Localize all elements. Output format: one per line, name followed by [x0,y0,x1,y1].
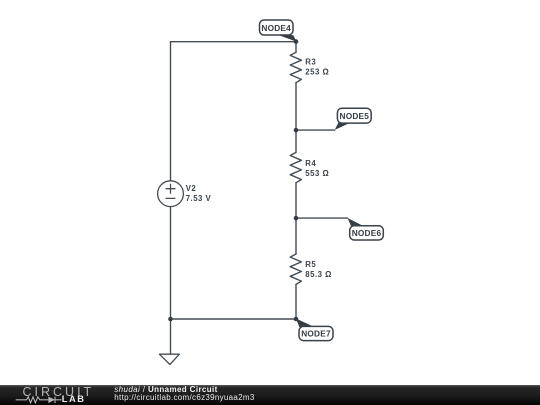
svg-text:85.3 Ω: 85.3 Ω [305,270,332,279]
svg-text:NODE7: NODE7 [301,329,331,339]
node NODE7 flag [296,318,333,340]
wire bottom horizontal [171,318,297,320]
svg-text:R4: R4 [305,159,316,168]
footer bar [0,385,540,405]
svg-text:7.53 V: 7.53 V [186,194,212,203]
ground [159,354,179,364]
wire stub to NODE5 flag [296,129,335,131]
wire right: node5 to R4 [295,130,297,152]
svg-text:V2: V2 [186,184,197,193]
node E junction dot ground [168,317,173,322]
svg-text:253 Ω: 253 Ω [305,67,329,76]
svg-text:R3: R3 [305,57,316,66]
node D junction dot NODE7 [294,317,299,322]
node C junction dot NODE6 [294,216,299,221]
svg-text:http://circuitlab.com/c6z39nyu: http://circuitlab.com/c6z39nyuaa2m3 [114,393,255,402]
resistor R5 [290,254,301,284]
wire left vertical lower [170,207,172,319]
label R5 value [305,260,332,279]
node NODE6 flag [348,218,384,240]
wire right: node4 to R3 [295,42,297,53]
wire right: R4 to node6 [295,183,297,218]
logo schematic symbol [16,397,62,403]
svg-text:553 Ω: 553 Ω [305,169,329,178]
wire right: R5 to node7 [295,284,297,319]
svg-text:NODE5: NODE5 [340,111,370,121]
wire right: R3 to node5 [295,83,297,130]
wire right: node6 to R5 [295,218,297,254]
resistor R4 [290,152,301,182]
node B junction dot NODE5 [294,128,299,133]
svg-text:NODE6: NODE6 [352,228,382,238]
node NODE5 flag [335,108,371,130]
wire ground stem [170,319,172,354]
voltage source V2 [158,181,184,207]
svg-text:LAB: LAB [62,394,86,404]
label V2 value [186,184,212,203]
svg-text:NODE4: NODE4 [261,23,291,33]
resistor R3 [290,52,301,82]
label R3 value [305,57,329,76]
wire stub to NODE6 flag [296,217,348,219]
wire top horizontal [171,41,297,43]
label R4 value [305,159,329,178]
svg-text:R5: R5 [305,260,316,269]
node NODE4 flag [260,20,297,42]
node A junction dot NODE4 [294,39,299,44]
wire left vertical upper [170,42,172,181]
